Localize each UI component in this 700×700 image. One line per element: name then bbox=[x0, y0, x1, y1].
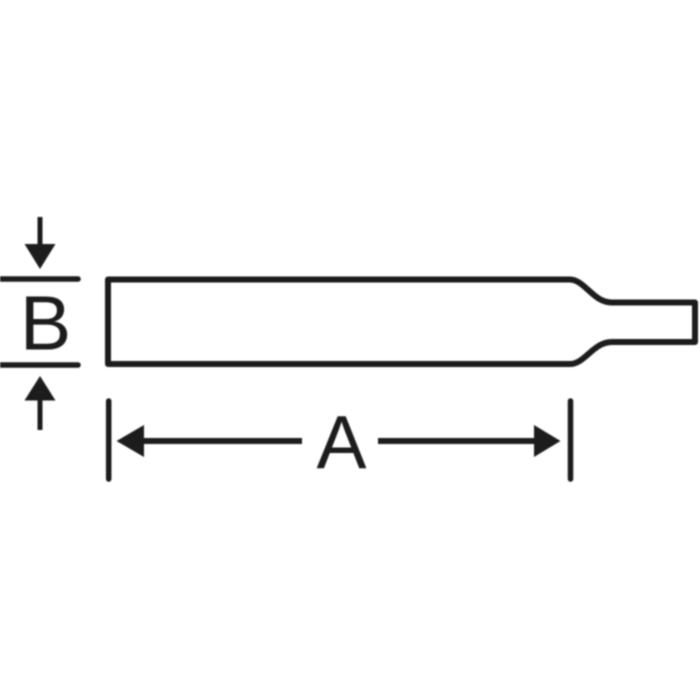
svg-text:A: A bbox=[316, 400, 366, 484]
dimension B up arrowhead bbox=[25, 376, 56, 401]
dimension A left tick line bbox=[106, 401, 112, 479]
file body outline bbox=[108, 280, 695, 365]
dimension A left line segment bbox=[141, 438, 302, 444]
dimension A right arrowhead bbox=[534, 425, 561, 457]
dimension A right line segment bbox=[378, 438, 537, 444]
dimension B upper tick line bbox=[0, 276, 78, 282]
dimension B lower tick line bbox=[0, 362, 78, 368]
dimension B down arrowhead bbox=[25, 244, 56, 269]
dimension A right tick line bbox=[568, 401, 574, 479]
dimension A left arrowhead bbox=[117, 425, 145, 457]
dimension B up arrow shaft bbox=[38, 398, 43, 430]
dimension B down arrow shaft bbox=[38, 217, 43, 247]
svg-text:B: B bbox=[20, 281, 71, 367]
